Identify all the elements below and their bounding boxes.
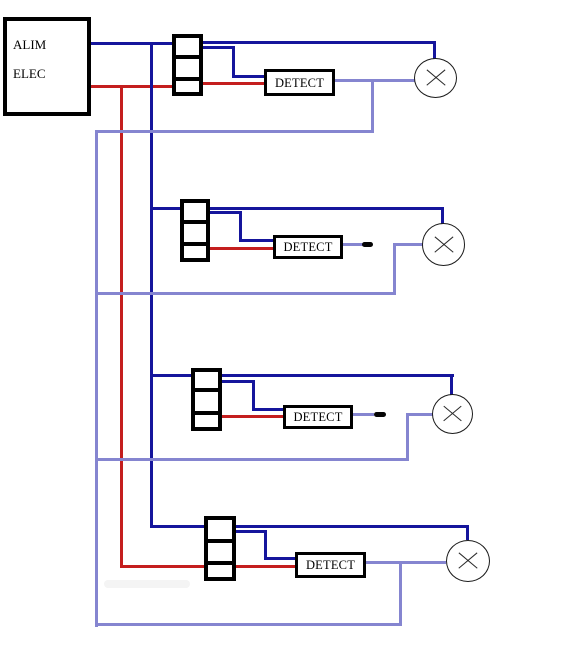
wire: row3 return drop (light blue) <box>406 413 409 461</box>
wire: row2 return drop (light blue) <box>393 243 396 295</box>
detector D4 <box>295 552 366 578</box>
wire: row1 red block X1 to DETECT D1 <box>195 82 266 85</box>
detector D3 <box>283 405 353 429</box>
terminal block X2 <box>180 199 210 262</box>
wire: row3 blue drop into lamp L3 <box>450 375 453 395</box>
terminal block X3 <box>191 368 222 431</box>
wire: main neutral vertical riser (red) <box>120 87 123 568</box>
wire: row2 blue drop into lamp L2 <box>441 208 444 224</box>
detector D1 <box>264 69 335 96</box>
wire: row4 blue drop into lamp L4 <box>466 526 469 540</box>
lamp L1 <box>414 58 457 98</box>
wire: row1 blue drop into lamp L1 <box>433 41 436 59</box>
lamp L2 <box>422 223 465 266</box>
wire: row4 return drop (light blue) <box>399 561 402 626</box>
terminal block X4 <box>204 516 236 581</box>
wire: row1 blue block X1 to lamp L1 <box>195 41 436 44</box>
wire: row1 return DETECT D1 to lamp L1 (light blue) <box>335 79 415 82</box>
wire: row3 blue feed riser to lamp L3 <box>150 374 454 377</box>
wire: row3 return horizontal to bus (light blue) <box>95 458 409 461</box>
faint erased smudge <box>104 580 190 588</box>
lamp L4 <box>446 540 490 582</box>
wire: row4 return DETECT D4 to lamp L4 (light blue) <box>366 561 446 564</box>
terminator dash row2 <box>362 242 373 247</box>
wire: row3 lamp stub (light blue) <box>406 413 433 416</box>
wire: main phase vertical riser (blue) <box>150 44 153 528</box>
wire: row2 stub DETECT D2 to terminator (light blue) <box>343 243 364 246</box>
lamp L3 <box>432 394 473 434</box>
terminal block X1 <box>172 34 203 96</box>
wire: neutral feed ALIM to block X1 (red) <box>91 85 180 88</box>
wire: row1 return horizontal to bus (light blue) <box>95 130 374 133</box>
wire: row2 red block X2 to DETECT D2 <box>210 247 273 250</box>
wire: row2 lamp stub (light blue) <box>393 243 423 246</box>
wire: row2 blue branch to DETECT D2 (jog) <box>210 211 242 214</box>
terminator dash row3 <box>374 412 386 417</box>
wire: row3 red block X3 to DETECT D3 <box>221 415 283 418</box>
wire: row4 red feed to DETECT D4 <box>120 565 295 568</box>
wire: row3 stub DETECT D3 to terminator (light blue) <box>353 413 374 416</box>
wire: row3 blue branch to DETECT D3 (jog) <box>221 380 255 383</box>
wire: row1 blue branch to DETECT D1 (jog) <box>202 46 235 49</box>
wire: row4 blue branch to DETECT D4 (jog) <box>236 530 267 533</box>
wire: row4 blue feed to lamp L4 <box>150 525 469 528</box>
detector D2 <box>273 235 343 259</box>
wire: bottom return bus horizontal (light blue) <box>95 623 402 626</box>
power supply ALIM ELEC <box>3 17 91 116</box>
wire: return bus vertical (light blue) <box>95 130 98 627</box>
wire: phase feed ALIM to block X1 (blue) <box>91 42 180 45</box>
wire: row1 return drop (light blue) <box>371 79 374 133</box>
wire: row2 return horizontal to bus (light blue) <box>95 292 396 295</box>
wire: row2 blue feed riser to lamp L2 <box>150 207 444 210</box>
